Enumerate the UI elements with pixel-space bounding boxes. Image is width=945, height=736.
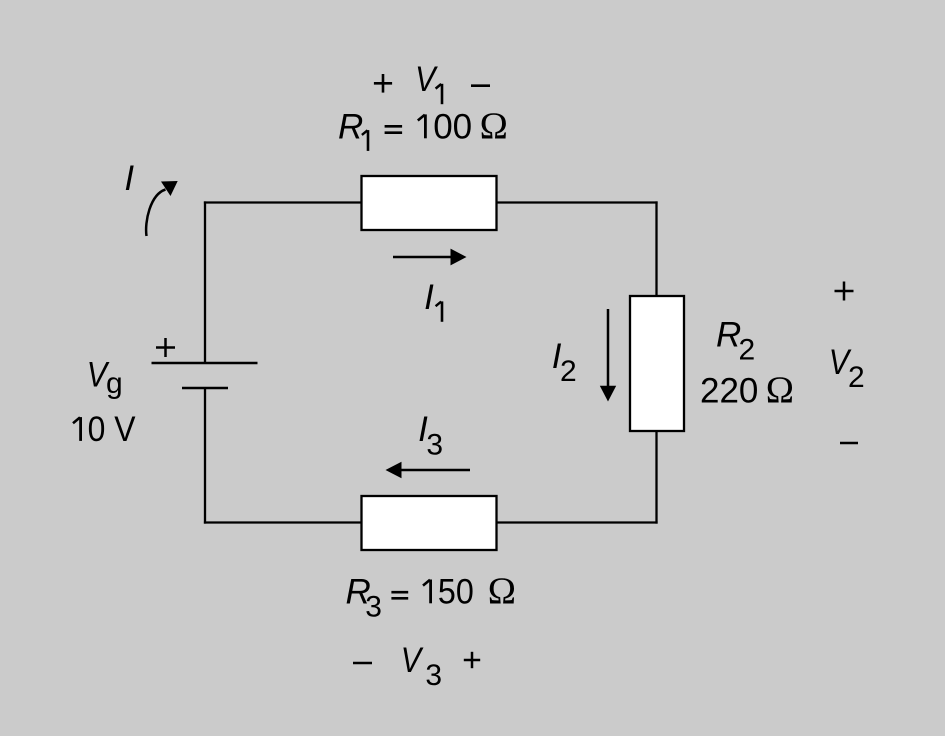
svg-text:3: 3 [425,659,442,692]
arrow I3 [386,462,471,478]
arrow I curved [146,181,178,236]
svg-text:0 V: 0 V [88,410,136,449]
svg-text:2: 2 [739,334,756,367]
wire left lower segment [204,388,206,524]
label R3 = 150 ohm [346,570,516,623]
svg-text:V: V [415,60,439,99]
wire bottom segment [204,521,658,523]
battery Vg negative plate [182,387,228,390]
svg-text:2: 2 [848,361,865,394]
label plus V2 [829,282,865,444]
resistor R2 [630,296,684,431]
label I1 [424,278,442,322]
label R1 = 100 ohm [338,105,508,151]
label Vg [87,355,123,400]
battery Vg positive plate [152,362,258,365]
svg-text:00: 00 [433,107,472,146]
label I2 [552,337,577,388]
wire right segment [655,201,657,523]
wire left upper segment [204,201,206,363]
svg-text:3: 3 [365,591,382,624]
label 10 V [73,410,136,449]
label R2 [716,315,755,366]
svg-text:I: I [424,278,434,317]
label I3 [418,410,443,461]
svg-text:V: V [401,641,425,680]
svg-text:Ω: Ω [480,105,508,147]
wire top segment [204,201,658,203]
label minus V3 plus [353,641,480,692]
svg-text:220: 220 [700,372,758,411]
arrow I2 [600,309,616,402]
resistor R1 [362,176,497,230]
resistor R3 [362,496,497,550]
svg-text:Ω: Ω [766,370,794,412]
svg-text:Ω: Ω [488,570,516,612]
battery plus sign [156,338,175,357]
svg-text:g: g [106,367,123,400]
label plus V1 [374,60,490,104]
svg-text:2: 2 [560,355,577,388]
svg-text:R: R [338,107,363,146]
svg-text:R: R [716,315,741,354]
svg-text:50: 50 [438,572,474,611]
svg-text:I: I [124,159,134,198]
svg-text:3: 3 [426,428,443,461]
arrow I1 [393,249,467,266]
